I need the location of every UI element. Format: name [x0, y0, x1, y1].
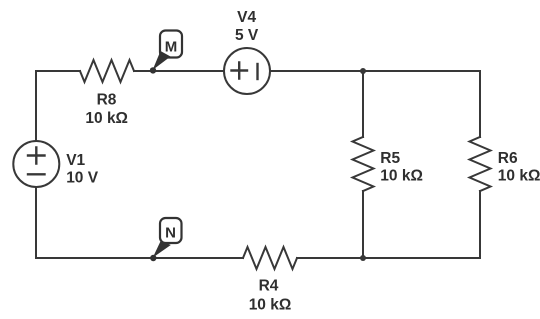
junction node top of R5 branch: [360, 68, 366, 74]
wire top-left: corner to R8: [36, 71, 80, 141]
resistor R4: [243, 247, 297, 269]
svg-text:R4: R4: [259, 278, 279, 295]
voltage source V4 circle: [224, 48, 270, 94]
svg-text:10 kΩ: 10 kΩ: [249, 297, 292, 314]
svg-text:R6: R6: [498, 150, 518, 167]
junction node bottom of R5 branch: [360, 255, 366, 261]
wire middle branch lower: [362, 191, 364, 258]
probe N box: [160, 218, 182, 243]
V4 minus bar: [256, 64, 258, 79]
svg-text:10 kΩ: 10 kΩ: [85, 110, 128, 127]
svg-text:10 V: 10 V: [66, 169, 99, 186]
wire right side lower: [479, 191, 481, 258]
resistor R8: [80, 60, 134, 82]
wire right side upper: [479, 71, 481, 137]
svg-text:5 V: 5 V: [235, 27, 259, 44]
svg-text:R8: R8: [97, 92, 117, 109]
svg-text:N: N: [165, 225, 176, 242]
probe N tail: [153, 241, 171, 258]
probe M tail: [153, 51, 171, 70]
wire middle branch upper: [362, 71, 364, 137]
svg-text:R5: R5: [380, 150, 400, 167]
wire left side lower: [35, 187, 37, 258]
wire bottom right: corner to R4: [297, 257, 480, 259]
svg-text:V1: V1: [66, 152, 85, 169]
svg-text:V4: V4: [237, 9, 256, 26]
voltage source V1 circle: [13, 141, 59, 187]
wire R8 to V4: [134, 70, 224, 72]
svg-text:10 kΩ: 10 kΩ: [498, 168, 540, 185]
svg-text:M: M: [165, 39, 178, 56]
wire bottom left: R4 to corner: [36, 257, 243, 259]
probe N dot: [150, 255, 156, 261]
resistor R6: [470, 137, 491, 191]
wire V4 to top-right corner: [270, 70, 480, 72]
V1 minus sign: [28, 173, 45, 175]
probe M dot: [150, 67, 156, 73]
V1 plus sign: [28, 148, 45, 164]
probe M box: [160, 31, 182, 58]
V4 plus sign: [232, 63, 248, 79]
resistor R5: [353, 137, 374, 191]
svg-text:10 kΩ: 10 kΩ: [380, 168, 423, 185]
